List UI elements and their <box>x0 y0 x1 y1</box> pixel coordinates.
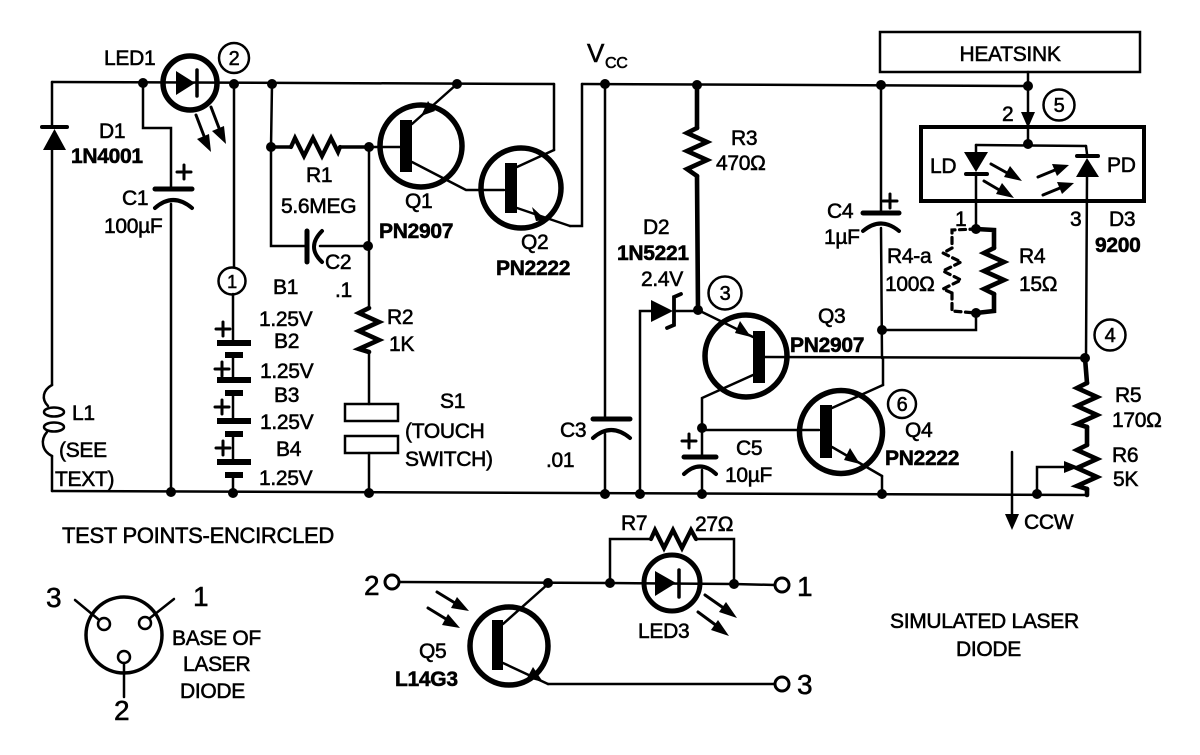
wire Q2 emitter to Vcc rail riser <box>570 84 582 226</box>
diode D1 <box>42 127 67 150</box>
capacitor C4 <box>863 213 899 231</box>
connector pin 3 <box>98 618 110 630</box>
svg-text:B3: B3 <box>274 384 299 407</box>
svg-text:3: 3 <box>1070 208 1081 231</box>
wire left vertical (D1/L1 branch) top <box>51 82 54 126</box>
potentiometer R6 <box>1077 445 1097 495</box>
wire R1 branch vertical <box>271 84 272 147</box>
svg-text:(SEE: (SEE <box>59 439 107 462</box>
svg-text:.1: .1 <box>335 279 352 302</box>
svg-text:B1: B1 <box>273 276 298 299</box>
svg-text:27Ω: 27Ω <box>695 513 733 536</box>
svg-text:2: 2 <box>114 695 129 726</box>
svg-text:5K: 5K <box>1113 468 1138 491</box>
junction dot R7 right node <box>729 579 739 589</box>
svg-text:R1: R1 <box>306 164 332 187</box>
svg-text:Q1: Q1 <box>405 190 432 213</box>
svg-text:6: 6 <box>897 394 908 416</box>
svg-text:3: 3 <box>797 669 812 700</box>
light arrow PD b <box>1043 182 1074 195</box>
svg-text:LED3: LED3 <box>638 620 689 643</box>
svg-text:TEST POINTS-ENCIRCLED: TEST POINTS-ENCIRCLED <box>62 523 334 548</box>
junction dot C4 top <box>876 80 886 90</box>
wire C3 branch <box>604 84 607 417</box>
plus sign B1 <box>216 322 230 336</box>
transistor Q2 <box>481 148 570 228</box>
wire Q1 base node down through C2 node to R2 <box>368 147 371 308</box>
svg-text:B4: B4 <box>276 438 302 461</box>
svg-text:C1: C1 <box>122 187 148 210</box>
svg-text:C5: C5 <box>736 437 762 460</box>
touch switch S1 plate 1 <box>345 404 398 421</box>
svg-text:2: 2 <box>364 570 379 601</box>
svg-text:2: 2 <box>229 48 240 70</box>
svg-text:D2: D2 <box>643 216 669 239</box>
junction dot battery branch <box>229 79 239 89</box>
wire C1 branch <box>143 83 171 187</box>
svg-text:5: 5 <box>1054 95 1065 117</box>
svg-text:C3: C3 <box>560 419 586 442</box>
heatsink box <box>880 32 1140 72</box>
svg-text:PN2907: PN2907 <box>379 220 453 243</box>
capacitor C1 <box>155 189 192 208</box>
svg-text:1.25V: 1.25V <box>259 308 313 331</box>
svg-text:R4-a: R4-a <box>887 245 932 268</box>
transistor Q4 <box>800 358 884 494</box>
wire C4 bottom to node <box>881 228 882 358</box>
laser package D3 box <box>921 127 1144 201</box>
wire battery branch vertical <box>233 84 236 268</box>
resistor R4 <box>976 229 1004 313</box>
svg-text:R4: R4 <box>1019 245 1046 268</box>
light arrow LD a <box>991 164 1022 181</box>
svg-text:R7: R7 <box>621 512 647 535</box>
plus sign C1 <box>177 165 191 179</box>
svg-text:D3: D3 <box>1109 208 1135 231</box>
junction dot Q4 emitter ground <box>877 489 887 499</box>
light arrow into Q5 a <box>437 592 469 611</box>
touch switch S1 plate 2 <box>345 436 398 453</box>
wire D3 pin2 internal <box>1027 127 1030 144</box>
svg-text:R6: R6 <box>1112 444 1138 467</box>
terminal 3 circle <box>775 677 789 691</box>
svg-text:LED1: LED1 <box>104 47 155 70</box>
connector pin 1 <box>139 617 151 629</box>
svg-text:PD: PD <box>1107 154 1136 177</box>
svg-text:1.25V: 1.25V <box>260 360 314 383</box>
svg-text:S1: S1 <box>440 390 465 413</box>
connector pin 2 <box>118 651 130 663</box>
junction dot C1 ground <box>166 487 176 497</box>
terminal 1 circle <box>775 578 789 592</box>
svg-text:1.25V: 1.25V <box>259 467 313 490</box>
svg-text:470Ω: 470Ω <box>716 152 766 175</box>
junction dot Q3 collector node <box>697 423 707 433</box>
wiper arrow R6 <box>1037 461 1079 494</box>
svg-text:LASER: LASER <box>183 653 250 676</box>
wire battery to ground rail <box>232 478 235 493</box>
capacitor C5 <box>684 428 716 494</box>
battery B3 <box>217 418 251 437</box>
svg-text:CC: CC <box>605 55 628 72</box>
svg-text:DIODE: DIODE <box>956 638 1021 661</box>
test point circle 2 <box>219 43 249 73</box>
junction dot C2 right node <box>363 241 373 251</box>
svg-text:1µF: 1µF <box>824 226 860 249</box>
svg-text:C2: C2 <box>325 251 351 274</box>
svg-text:CCW: CCW <box>1024 511 1074 534</box>
junction dot S1 ground <box>364 488 374 498</box>
svg-text:1: 1 <box>227 272 237 292</box>
svg-text:SWITCH): SWITCH) <box>405 448 493 471</box>
resistor R2 <box>359 308 379 352</box>
wire C4 branch upper <box>880 85 883 211</box>
svg-text:170Ω: 170Ω <box>1112 409 1162 432</box>
svg-text:3: 3 <box>46 582 61 613</box>
svg-text:C4: C4 <box>827 200 854 223</box>
resistor R3 <box>687 85 707 310</box>
junction dot C5 ground <box>697 489 707 499</box>
wire R2 to S1 <box>368 352 371 404</box>
svg-text:1K: 1K <box>389 333 414 356</box>
test point circle 1 <box>219 268 246 295</box>
svg-text:100µF: 100µF <box>104 215 162 238</box>
junction dot PD node <box>1080 353 1090 363</box>
svg-text:1: 1 <box>193 581 208 612</box>
plus sign B4 <box>216 441 230 455</box>
svg-text:D1: D1 <box>99 120 125 143</box>
wire Q5 emitter to terminal 3 <box>548 683 775 686</box>
svg-text:V: V <box>587 38 605 68</box>
junction dot D3 internal <box>1023 139 1033 149</box>
svg-text:100Ω: 100Ω <box>885 273 935 296</box>
resistor R4-a dashed <box>943 229 976 313</box>
leader line pin 1 <box>150 599 174 618</box>
light arrow into Q5 b <box>428 608 460 628</box>
junction dot R3 top <box>692 80 702 90</box>
test point circle 4 <box>1095 320 1126 351</box>
LED LED3 <box>610 555 734 611</box>
wire rail corner down to Q2 collector <box>553 84 556 150</box>
junction dot Q1 base node <box>364 142 374 152</box>
capacitor C2 <box>307 231 322 262</box>
svg-text:B2: B2 <box>274 330 299 353</box>
junction dot battery ground <box>228 488 238 498</box>
svg-text:LD: LD <box>930 155 956 178</box>
wire D3 internal bus <box>976 145 1086 146</box>
resistor R1 <box>271 138 369 156</box>
wire terminal 2 to LED3 <box>399 582 610 583</box>
transistor Q1 <box>369 84 504 190</box>
wire R4 return horizontal <box>882 313 976 330</box>
junction dot Q5 collector node <box>543 578 553 588</box>
svg-text:.01: .01 <box>546 449 574 472</box>
resistor R7 bypass loop <box>610 530 734 584</box>
wire C1 to ground rail <box>170 204 173 492</box>
light arrow LED3 b <box>698 612 729 636</box>
svg-text:Q3: Q3 <box>818 305 845 328</box>
arrow pin2 into D3 <box>1021 86 1035 128</box>
CCW annotation arrow <box>1005 452 1019 530</box>
svg-text:L14G3: L14G3 <box>395 668 458 691</box>
light arrow LD b <box>984 181 1014 198</box>
svg-text:R2: R2 <box>387 306 413 329</box>
photodiode PD <box>1076 146 1099 357</box>
svg-text:1: 1 <box>797 571 812 602</box>
light arrow PD a <box>1038 164 1069 177</box>
light arrow LED1 b <box>211 107 226 144</box>
light arrow LED3 a <box>705 595 737 618</box>
junction dot R4 bottom <box>971 308 981 318</box>
wire battery link 2-3 <box>232 396 235 418</box>
LED LED1 <box>163 56 217 110</box>
wire below test point 1 <box>232 294 235 340</box>
wire battery link 3-4 <box>232 437 235 459</box>
battery B1 <box>217 340 251 358</box>
wire ground rail <box>52 491 1087 495</box>
svg-text:Q4: Q4 <box>905 419 933 442</box>
resistor R5 <box>1077 358 1097 445</box>
junction dot C3 ground <box>600 489 610 499</box>
wire C2 right lead <box>320 245 368 248</box>
junction dot C1 branch top <box>138 78 148 88</box>
svg-text:SIMULATED LASER: SIMULATED LASER <box>890 610 1079 633</box>
leader line pin 2 <box>123 663 126 697</box>
junction dot heatsink rail <box>1023 81 1033 91</box>
connector circle base of laser diode <box>86 597 162 673</box>
svg-text:1: 1 <box>955 208 966 231</box>
battery B4 <box>217 459 251 478</box>
svg-text:PN2222: PN2222 <box>885 447 959 470</box>
plus sign C4 <box>883 194 897 208</box>
svg-text:15Ω: 15Ω <box>1019 273 1057 296</box>
junction dot R1 left node <box>266 142 276 152</box>
wire heatsink to rail <box>1027 72 1030 86</box>
svg-text:2.4V: 2.4V <box>641 268 683 291</box>
zener diode D2 <box>640 294 698 494</box>
wire Vcc rail <box>582 84 1028 86</box>
light arrow LED1 a <box>196 115 211 152</box>
svg-text:PN2907: PN2907 <box>790 334 864 357</box>
junction dot D2 ground <box>635 489 645 499</box>
junction dot R4 top <box>971 224 981 234</box>
svg-text:5.6MEG: 5.6MEG <box>281 195 356 218</box>
svg-text:L1: L1 <box>72 402 95 425</box>
leader line pin 3 <box>75 600 98 619</box>
wire R1 node down to C2 <box>271 147 306 246</box>
junction dot wiper ground <box>1032 489 1042 499</box>
svg-text:4: 4 <box>1105 325 1116 347</box>
svg-text:3: 3 <box>720 283 731 305</box>
svg-text:1.25V: 1.25V <box>260 411 314 434</box>
wire left vertical below L1 to ground rail <box>51 456 54 491</box>
svg-text:Q2: Q2 <box>521 231 548 254</box>
junction dot Q1 emitter rail <box>452 79 462 89</box>
junction dot R1 branch top <box>267 79 277 89</box>
test point circle 6 <box>888 390 916 418</box>
laser diode LD <box>964 145 988 229</box>
svg-text:10µF: 10µF <box>725 464 772 487</box>
svg-text:9200: 9200 <box>1095 234 1141 257</box>
wire C3 to ground rail <box>604 434 607 494</box>
svg-text:R3: R3 <box>731 127 757 150</box>
wire top-left battery rail <box>52 82 554 84</box>
wire LED3 to terminal 1 <box>734 584 775 585</box>
plus sign B3 <box>215 400 229 414</box>
junction dot D2 cathode node <box>693 305 703 315</box>
wire S1 to ground rail <box>368 453 371 493</box>
svg-text:R5: R5 <box>1115 384 1141 407</box>
capacitor C3 <box>593 419 630 438</box>
svg-text:1N5221: 1N5221 <box>617 242 689 265</box>
terminal 2 circle <box>385 575 399 589</box>
svg-text:DIODE: DIODE <box>180 680 245 703</box>
svg-text:BASE OF: BASE OF <box>172 627 261 650</box>
inductor L1 <box>43 385 64 456</box>
wire left vertical below D1 <box>51 150 54 385</box>
plus sign C5 <box>682 434 696 448</box>
svg-text:2: 2 <box>1002 103 1013 126</box>
svg-text:1N4001: 1N4001 <box>71 145 143 168</box>
battery B2 <box>217 377 251 396</box>
junction dot Vcc node <box>600 79 610 89</box>
wire battery link 1-2 <box>232 358 235 377</box>
wire Q4 base lead <box>702 428 819 430</box>
test point circle 3 <box>709 277 742 310</box>
phototransistor Q5 <box>470 584 548 685</box>
plus sign B2 <box>215 362 229 376</box>
junction dot R7 left node <box>605 578 615 588</box>
junction dot R4 return node <box>877 325 887 335</box>
svg-text:PN2222: PN2222 <box>496 257 570 280</box>
svg-text:(TOUCH: (TOUCH <box>405 420 484 443</box>
svg-text:TEXT): TEXT) <box>55 468 114 491</box>
transistor Q3 <box>698 310 1085 428</box>
svg-text:HEATSINK: HEATSINK <box>959 43 1060 66</box>
test point circle 5 <box>1044 90 1075 121</box>
svg-text:Q5: Q5 <box>419 640 446 663</box>
